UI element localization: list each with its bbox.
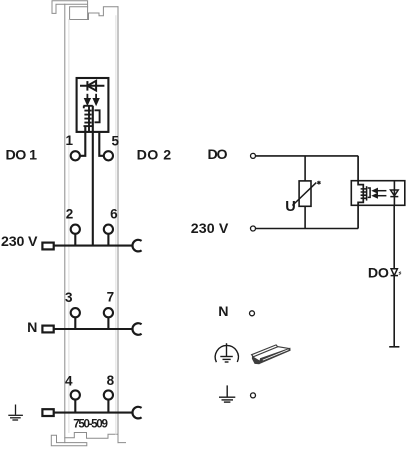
connector symbol [42, 326, 53, 333]
output LED triangle [391, 269, 398, 276]
wire row3 [54, 328, 133, 330]
svg-text:230 V: 230 V [1, 234, 38, 250]
stub 4 [74, 400, 76, 413]
LED diode D1 [80, 81, 104, 91]
status LED box U1 [77, 78, 109, 132]
varistor RV1 [304, 156, 306, 181]
stub 8 [107, 400, 109, 413]
terminal 7 [104, 308, 113, 317]
svg-text:2: 2 [66, 207, 74, 222]
connector symbol [42, 409, 53, 416]
top notch profile [70, 7, 118, 20]
varistor asterisk [317, 181, 320, 185]
terminal 2 [71, 225, 80, 234]
optocoupler box U2 [351, 181, 405, 206]
terminal 6 [104, 225, 113, 234]
stub 2 [74, 234, 76, 246]
svg-text:3: 3 [65, 290, 73, 305]
end bar [389, 346, 399, 348]
wire pin1 to box [80, 126, 85, 156]
right wall [117, 7, 119, 443]
bottom notch profile [65, 433, 126, 443]
terminal 1 [71, 151, 80, 160]
svg-text:U: U [285, 199, 296, 215]
cable arc row4 [132, 407, 141, 419]
svg-text:6: 6 [110, 207, 118, 222]
terminal N [250, 311, 255, 316]
left wall [64, 4, 66, 442]
svg-text:1: 1 [65, 133, 73, 148]
svg-text:5: 5 [111, 133, 119, 148]
terminal 5 [104, 151, 113, 160]
wire row4 [54, 412, 133, 414]
wire row2 [54, 245, 133, 247]
top tab [52, 1, 88, 20]
svg-text:DO 1: DO 1 [6, 147, 38, 163]
stub 7 [107, 317, 109, 329]
terminal earth [251, 393, 256, 398]
wire 230V rail [256, 228, 358, 230]
svg-text:230 V: 230 V [191, 221, 229, 237]
light arrows [85, 94, 98, 104]
cable arc row3 [132, 323, 141, 335]
module outline 750-509 housing [51, 1, 125, 446]
wire pin5 to box [99, 132, 104, 156]
varistor diagonal [292, 183, 316, 206]
wire into opto left [358, 156, 363, 229]
svg-text:DO 2: DO 2 [137, 148, 172, 164]
photo-triac grid [361, 186, 371, 200]
terminal 3 [71, 308, 80, 317]
terminal 8 [104, 390, 113, 399]
wire opto output down [393, 205, 395, 346]
wire DO rail [256, 155, 358, 157]
svg-text:8: 8 [107, 373, 115, 388]
opto LED diode [393, 181, 395, 206]
asterisk by output [399, 272, 401, 274]
cable arc row2 [132, 240, 141, 252]
light arrows opto [373, 189, 386, 198]
terminal DO [251, 153, 256, 158]
functional earth symbol [219, 385, 235, 402]
svg-text:DO: DO [208, 147, 228, 163]
svg-text:4: 4 [65, 373, 73, 388]
photo-triac symbol in box [83, 106, 99, 132]
stub 6 [107, 234, 109, 246]
protective earth symbol [215, 343, 238, 362]
wire center output [92, 106, 94, 246]
terminal 230V [251, 226, 256, 231]
terminal 4 [71, 390, 80, 399]
stub 3 [74, 317, 76, 329]
bottom tab [51, 435, 87, 446]
svg-text:7: 7 [107, 290, 115, 305]
svg-text:N: N [27, 320, 37, 336]
ground symbol left [8, 405, 23, 421]
svg-text:750-509: 750-509 [73, 418, 108, 431]
connector symbol [42, 243, 53, 250]
svg-text:N: N [218, 304, 228, 320]
DIN rail icon [252, 345, 291, 364]
svg-text:DO: DO [368, 265, 389, 281]
inner housing lines [69, 16, 116, 435]
